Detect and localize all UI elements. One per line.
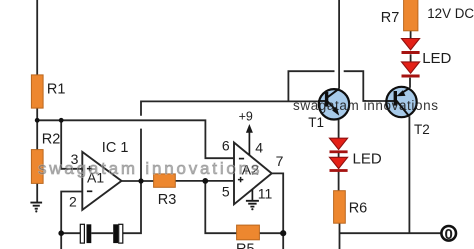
LED D4 above T2 (402, 62, 420, 78)
svg-text:R5: R5 (236, 242, 255, 249)
resistor R2 (31, 131, 60, 183)
wire R1 bottom to divider junction (36, 108, 38, 121)
svg-text:4: 4 (255, 139, 263, 155)
wire A1 output column up with hop over divider wire (141, 101, 318, 181)
node A2 pin5 dot (202, 178, 208, 184)
wire T1 collector from top (338, 0, 340, 89)
svg-text:11: 11 (258, 185, 273, 201)
wire LED1 to LED2 (338, 153, 340, 157)
terminal 0V (441, 226, 456, 243)
svg-text:12V DC: 12V DC (427, 6, 474, 21)
LED D2 under T1 (330, 157, 348, 172)
resistor R6 (334, 191, 368, 224)
wire R5 to A2 output node (259, 232, 283, 234)
svg-text:swagatam innovations: swagatam innovations (38, 159, 262, 178)
svg-text:7: 7 (276, 153, 284, 169)
ground below R2 (30, 203, 42, 213)
svg-text:LED: LED (422, 50, 451, 67)
transistor Q1 T1 NPN (308, 89, 349, 130)
capacitor C2 (113, 224, 123, 243)
op-amp U1 A1 (69, 140, 128, 210)
resistor R1 (31, 75, 65, 108)
wire A1 output to R3 (122, 180, 154, 182)
svg-text:swagatam innovations: swagatam innovations (293, 98, 439, 113)
wire A2 output down to node (272, 173, 284, 233)
wire A2 pin5 node down to R5 (205, 181, 236, 233)
svg-text:R6: R6 (349, 200, 368, 216)
transistor Q2 T2 PNP (386, 87, 430, 137)
plus sign pin5 input (238, 177, 243, 182)
resistor R5 (236, 225, 259, 249)
wire bottom rail below dot going offscreen (60, 233, 62, 249)
wire R2 bottom to ground (36, 183, 38, 202)
wire T1 base branch up and over to T2 base (hop over collector) (288, 71, 395, 101)
svg-text:T1: T1 (308, 115, 324, 130)
wire rail to capacitor C1 (61, 232, 80, 234)
svg-text:R1: R1 (47, 81, 66, 97)
wire R6 bottom to rail (339, 223, 341, 249)
wire A1 pin2 branch down to bottom rail (61, 192, 82, 234)
svg-text:+9: +9 (239, 110, 253, 124)
svg-text:0: 0 (445, 226, 453, 243)
pin 11 ground stem (251, 189, 253, 200)
resistor R3 (154, 174, 177, 208)
wire between capacitors (91, 232, 113, 234)
capacitor C1 (80, 224, 91, 243)
minus sign pin6 input (239, 158, 244, 160)
wire divider horizontal y=120.3 to A2 pin6 corner (37, 120, 234, 158)
ground pin 11 (246, 201, 259, 207)
wire supply left vertical to R1 (36, 0, 38, 75)
svg-text:IC 1: IC 1 (102, 140, 129, 156)
svg-text:R7: R7 (381, 10, 400, 26)
svg-text:R3: R3 (158, 192, 177, 208)
wire ground rail to 0V terminal (340, 232, 442, 234)
svg-text:5: 5 (222, 184, 230, 200)
node divider junction dot A (35, 118, 40, 123)
svg-text:6: 6 (222, 138, 230, 154)
wire T1 emitter to LED1 (338, 120, 340, 138)
wire A1 pin3 branch (61, 120, 82, 169)
svg-text:2: 2 (69, 193, 77, 209)
wire LED4 to T2 emitter (409, 78, 411, 88)
minus sign pin2 input (87, 190, 92, 192)
node A2 output dot (280, 230, 286, 236)
wire capacitor C2 to output column (123, 181, 141, 233)
wire T2 collector down to rail (408, 116, 410, 233)
resistor R7 (381, 0, 418, 31)
node divider junction dot B (59, 118, 64, 123)
wire R7 bottom to LED3 (410, 31, 412, 39)
node bottom-left rail dot (58, 230, 64, 236)
pin 4 supply arrow (248, 131, 250, 156)
wire R3 to A2 pin5 (175, 180, 234, 182)
op-amp U2 A2 (222, 110, 284, 211)
wire junction to R2 top (36, 120, 38, 149)
wire LED2 to R6 (338, 172, 340, 191)
node A1 output dot (138, 178, 143, 183)
LED D3 above T2 (402, 39, 420, 55)
LED D1 under T1 (330, 138, 348, 153)
svg-text:R2: R2 (42, 131, 61, 147)
plus sign pin3 input (87, 166, 92, 171)
wire A2 output node down offscreen (282, 233, 284, 249)
svg-text:LED: LED (353, 150, 382, 167)
svg-text:T2: T2 (414, 122, 430, 137)
wire LED3 to LED4 (410, 54, 412, 62)
